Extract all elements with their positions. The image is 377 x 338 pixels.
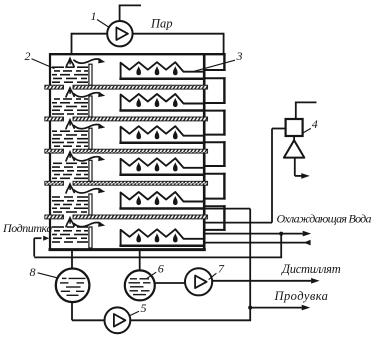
svg-text:7: 7 xyxy=(218,262,225,276)
svg-text:Пар: Пар xyxy=(150,16,173,30)
svg-text:1: 1 xyxy=(91,9,97,23)
svg-text:Охлаждающая Вода: Охлаждающая Вода xyxy=(277,211,372,225)
svg-text:Продувка: Продувка xyxy=(274,289,329,303)
svg-text:4: 4 xyxy=(312,117,318,131)
svg-text:5: 5 xyxy=(141,301,147,315)
svg-text:2: 2 xyxy=(25,49,31,63)
svg-text:8: 8 xyxy=(30,265,36,279)
svg-text:3: 3 xyxy=(236,49,243,63)
svg-text:Дистиллят: Дистиллят xyxy=(281,262,341,276)
svg-text:Подпитка: Подпитка xyxy=(2,221,52,235)
svg-text:6: 6 xyxy=(158,262,164,276)
